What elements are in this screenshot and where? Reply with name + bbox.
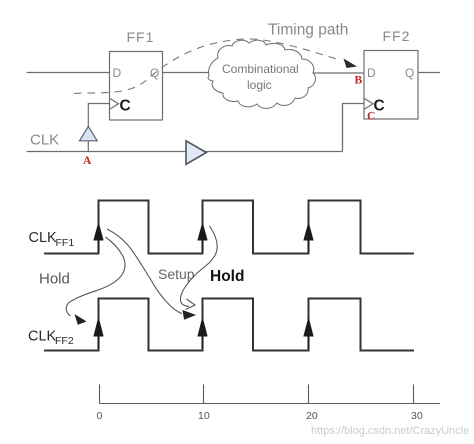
- combinational logic cloud: [208, 40, 315, 108]
- svg-text:C: C: [120, 98, 131, 115]
- svg-text:B: B: [355, 75, 363, 87]
- setup arrow (FF1 edge1 to FF2 edge2): [107, 229, 182, 314]
- svg-text:CLK: CLK: [28, 329, 57, 345]
- svg-text:Combinational: Combinational: [222, 62, 299, 76]
- svg-text:CLK: CLK: [29, 230, 58, 246]
- svg-text:FF1: FF1: [56, 237, 75, 249]
- CLK_FF1 edge arrow 2: [198, 224, 207, 253]
- hold arrow right (FF1 edge2 to FF2 edge2): [181, 226, 218, 306]
- svg-text:A: A: [83, 155, 92, 167]
- svg-text:Setup: Setup: [158, 266, 195, 282]
- svg-text:30: 30: [411, 410, 423, 422]
- CLK_FF1 edge arrow 3: [304, 224, 313, 253]
- wire cloud to FF2 D: [313, 72, 364, 74]
- svg-text:Hold: Hold: [39, 271, 70, 288]
- CLK line after buffer: [205, 151, 343, 153]
- svg-text:https://blog.csdn.net/CrazyUnc: https://blog.csdn.net/CrazyUncle: [311, 425, 469, 437]
- svg-text:D: D: [367, 66, 376, 80]
- svg-text:FF1: FF1: [127, 29, 155, 45]
- clock buffer on CLK line (right triangle): [186, 141, 206, 165]
- CLK_FF2 edge arrow 3: [304, 319, 313, 350]
- clock buffer to FF1 (up triangle): [87, 141, 89, 152]
- svg-text:20: 20: [306, 410, 318, 422]
- hold arrow left (FF1 edge1 to FF2 edge1): [66, 237, 125, 316]
- svg-text:Hold: Hold: [210, 268, 244, 285]
- svg-text:Timing path: Timing path: [268, 22, 348, 39]
- flip-flop FF1 box: [110, 52, 163, 121]
- svg-text:C: C: [367, 111, 375, 123]
- wire Q2 output: [418, 72, 440, 74]
- tick 30: [413, 385, 415, 404]
- CLK_FF1 edge arrow 1: [94, 224, 103, 253]
- wire buffer to FF1 C: [88, 104, 110, 127]
- wire D1 input: [27, 72, 110, 74]
- FF2 clock chevron: [365, 99, 374, 110]
- CLK_FF2 edge arrow 2: [198, 319, 207, 350]
- wire Q1 to cloud: [163, 72, 211, 74]
- svg-text:D: D: [113, 66, 122, 80]
- flip-flop FF2 box: [364, 51, 418, 120]
- svg-text:10: 10: [198, 410, 210, 422]
- timeline axis: [100, 403, 441, 405]
- svg-text:FF2: FF2: [55, 335, 74, 347]
- CLK riser to FF2: [343, 104, 365, 152]
- tick 10: [203, 385, 205, 404]
- svg-text:Q: Q: [405, 66, 414, 80]
- svg-text:0: 0: [97, 410, 103, 422]
- timing path arrowhead: [344, 59, 358, 69]
- FF1 clock chevron: [110, 99, 119, 110]
- CLK_FF1 waveform: [44, 201, 414, 254]
- tick 20: [308, 385, 310, 404]
- CLK line: [27, 151, 187, 153]
- svg-text:CLK: CLK: [30, 132, 59, 149]
- svg-text:logic: logic: [247, 78, 272, 92]
- CLK_FF2 edge arrow 1: [94, 319, 103, 350]
- tick 0: [99, 385, 101, 404]
- CLK_FF2 waveform: [44, 299, 414, 351]
- timing path dashed curve: [74, 39, 341, 94]
- svg-text:FF2: FF2: [383, 28, 411, 44]
